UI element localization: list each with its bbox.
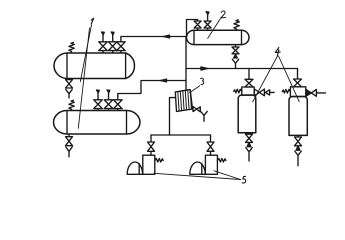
valve on upper drum top (middle) [108,35,117,53]
label 3 [201,78,204,84]
drain funnel Y under upper drum [66,89,72,98]
vent arrow above [206,12,209,15]
drain valve under upper drum [66,79,73,89]
header pipe to adsorbers [186,68,298,70]
pump 1 casing box [143,155,155,174]
vent arrow above left valve [102,32,105,35]
main riser pipe [185,37,187,91]
flow arrow right on header [201,67,208,70]
adsorber 2 inlet valve [294,79,302,87]
vessel 2 top drum shell [186,30,249,44]
adsorber 2 drain arrow up [296,146,300,150]
label 1 [91,18,94,24]
vessel 1 lower drum shell [54,111,141,135]
adsorber 2 head spring [282,90,290,94]
adsorber 1 inlet drop [248,69,250,80]
spring (safety) on upper drum top [69,43,74,53]
drain valve under drum 2 [232,45,239,54]
adsorber 2 drain funnel Y [295,151,301,166]
pump 2 inlet pipe [210,135,212,142]
filter hatch lines [178,90,192,111]
flow arrow left on that pipe [161,79,167,82]
adsorber 2 side valve [306,90,311,97]
adsorber 2 head box [290,87,305,97]
leader from 4 to adsorber 1 [253,56,278,102]
pump 2 spring [217,159,226,163]
adsorber 1 drain valve [246,134,253,142]
pump 1 valve [148,142,155,155]
pipe from main riser to lower drum valve [118,81,186,100]
inlet valve on drum 2 top [194,21,201,30]
label 4 [275,48,280,56]
adsorber 2 inlet drop [297,69,299,80]
pump 2 valve [207,142,214,155]
leader for label 3 [190,86,200,93]
drain funnel Y under lower drum [66,147,72,157]
valve on upper drum top (left) [99,35,108,53]
pump 1 inlet pipe [150,135,152,142]
pipe from drum 2 to upper drum valve [121,37,187,42]
pump 2 motor dome [190,162,205,174]
adsorber 1 side pipe with arrowhead [265,90,274,95]
adsorber 1 side valve [254,89,264,96]
drain arrow up under drum 2 [234,55,238,58]
valve on upper drum top (right) [117,42,126,53]
drain funnel Y joining header [232,59,238,68]
vessel 1 upper drum shell [54,53,134,79]
drain valve under lower drum [66,134,73,146]
leader from 5 to pump 1 [154,173,241,179]
adsorber 1 drain funnel Y [246,148,252,161]
vent arrow above [97,90,100,93]
spring (safety) on drum 2 top right [234,20,239,30]
vessel 1 upper drum weld lines [67,53,126,79]
leader from 4 to adsorber 2 [279,56,300,102]
adsorber 1 head spring [234,89,242,93]
leader for label 2 [208,19,221,39]
leader from 5 to pump 2 [214,171,241,180]
filter outlet pipe to pump header [170,98,176,135]
adsorber 2 drain valve [295,135,302,145]
valve on lower drum top (middle) [104,93,113,111]
flow arrow left on that pipe [164,35,170,38]
valve on lower drum top (left) [94,93,103,111]
pump 2 casing box [205,155,217,174]
vent arrow above [107,90,110,93]
leader from 1 to upper drum [80,25,91,82]
adsorber 1 body [238,95,256,133]
spring (safety) on lower drum top [69,100,74,110]
label 2 [221,11,226,18]
vessel 1 lower drum weld lines [67,111,127,135]
vent arrow above middle valve [111,32,114,35]
adsorber 2 side pipe [316,92,325,94]
label 5 [242,176,245,183]
valve on lower drum top (right) [114,100,123,111]
pump suction header [151,134,211,136]
filter drain funnel Y [201,111,207,121]
leader from 1 to lower drum [78,28,89,128]
adsorber 1 head box [242,87,254,95]
filter side valve [193,107,200,112]
adsorber 1 inlet valve [245,79,253,87]
pipe from drum 2 cap up to inlet valve [187,20,198,37]
vessel 2 weld lines [194,30,242,44]
pump 1 spring [155,159,164,163]
adsorber 2 body [289,97,307,136]
vent valve on drum 2 top [204,15,211,31]
pump 1 motor dome [127,162,142,174]
filter unit 3 (hatched box) [175,90,192,112]
adsorber 1 drain arrow up [247,143,251,147]
